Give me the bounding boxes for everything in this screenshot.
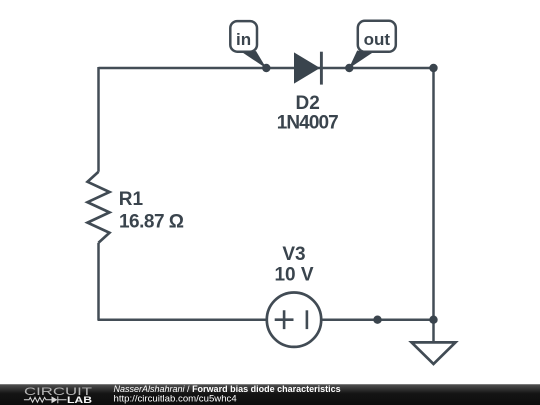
node out leader wedge (349, 51, 372, 69)
resistor R1 (88, 172, 110, 243)
diode D2 cathode bar (320, 52, 323, 85)
junction dot top right corner (429, 64, 437, 72)
voltage source V3 minus bar (306, 310, 309, 329)
node in junction dot (262, 64, 270, 72)
svg-text:R1: R1 (119, 189, 144, 210)
ground symbol (412, 342, 456, 364)
svg-text:V3: V3 (282, 244, 305, 265)
svg-text:16.87 Ω: 16.87 Ω (119, 212, 184, 233)
svg-text:out: out (364, 30, 391, 49)
wire bottom left (98, 318, 267, 321)
node out junction dot (345, 64, 353, 72)
node out label box (358, 21, 396, 52)
diode D2 triangle (anode) (294, 52, 320, 83)
footer logo circuit graphic wire with resistor and diode (24, 396, 67, 403)
wire top (node in/out rail) (99, 67, 434, 70)
footer bar (0, 384, 540, 405)
svg-text:1N4007: 1N4007 (277, 113, 339, 134)
svg-text:in: in (236, 30, 251, 49)
svg-text:D2: D2 (296, 93, 320, 114)
node in leader wedge (243, 51, 267, 69)
svg-text:http://circuitlab.com/cu5whc4: http://circuitlab.com/cu5whc4 (114, 393, 238, 404)
wire bottom right (322, 318, 434, 321)
node in label box (230, 21, 257, 52)
junction dot bottom right corner (429, 316, 437, 324)
wire right (432, 68, 435, 320)
voltage source V3 circle (267, 293, 321, 347)
svg-text:LAB: LAB (67, 395, 93, 405)
junction dot bottom mid (373, 316, 381, 324)
wire left lower (97, 243, 100, 320)
svg-text:10 V: 10 V (274, 265, 313, 286)
wire left upper (97, 67, 100, 172)
voltage source V3 plus sign (275, 310, 294, 329)
wire ground stub (432, 320, 435, 342)
